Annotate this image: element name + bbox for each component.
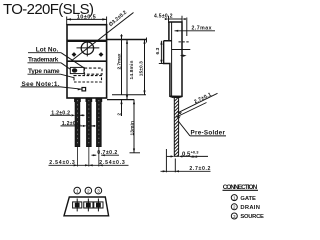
svg-text:4.5±0.2: 4.5±0.2 — [154, 13, 173, 19]
svg-text:2.54±0.3: 2.54±0.3 — [49, 160, 75, 166]
svg-text:15±0.3: 15±0.3 — [138, 61, 144, 76]
svg-text:0.7±0.2: 0.7±0.2 — [97, 150, 117, 156]
svg-text:2.7max: 2.7max — [192, 26, 212, 32]
svg-text:13min: 13min — [129, 121, 135, 136]
svg-text:SOURCE: SOURCE — [240, 214, 264, 220]
svg-text:CONNECTION: CONNECTION — [223, 184, 258, 191]
svg-text:1: 1 — [76, 189, 79, 195]
svg-text:6.3: 6.3 — [155, 47, 161, 54]
svg-text:Trademark: Trademark — [28, 57, 59, 64]
svg-text:Lot No.: Lot No. — [36, 47, 59, 54]
svg-text:See Note:1.: See Note:1. — [22, 81, 60, 88]
svg-text:1: 1 — [233, 196, 236, 201]
svg-text:3: 3 — [97, 189, 100, 195]
svg-text:2.7±0.1: 2.7±0.1 — [193, 92, 212, 106]
svg-text:2.54±0.3: 2.54±0.3 — [99, 160, 125, 166]
svg-text:Pre-Solder: Pre-Solder — [191, 129, 226, 136]
svg-text:2: 2 — [233, 205, 236, 210]
svg-text:2: 2 — [117, 113, 122, 116]
svg-text:GATE: GATE — [240, 196, 256, 202]
svg-text:10±0.5: 10±0.5 — [77, 14, 96, 20]
svg-text:1.2±0.1: 1.2±0.1 — [62, 121, 81, 127]
svg-text:14.8min: 14.8min — [129, 61, 135, 80]
svg-text:DRAIN: DRAIN — [240, 205, 260, 211]
svg-text:2.7max: 2.7max — [117, 53, 123, 69]
svg-text:2.7±0.2: 2.7±0.2 — [189, 166, 210, 172]
svg-text:-0.2: -0.2 — [191, 154, 199, 159]
svg-text:1.2±0.2: 1.2±0.2 — [51, 110, 70, 116]
svg-text:3: 3 — [233, 214, 236, 219]
svg-text:Type name: Type name — [28, 68, 60, 75]
svg-text:2: 2 — [87, 189, 90, 195]
